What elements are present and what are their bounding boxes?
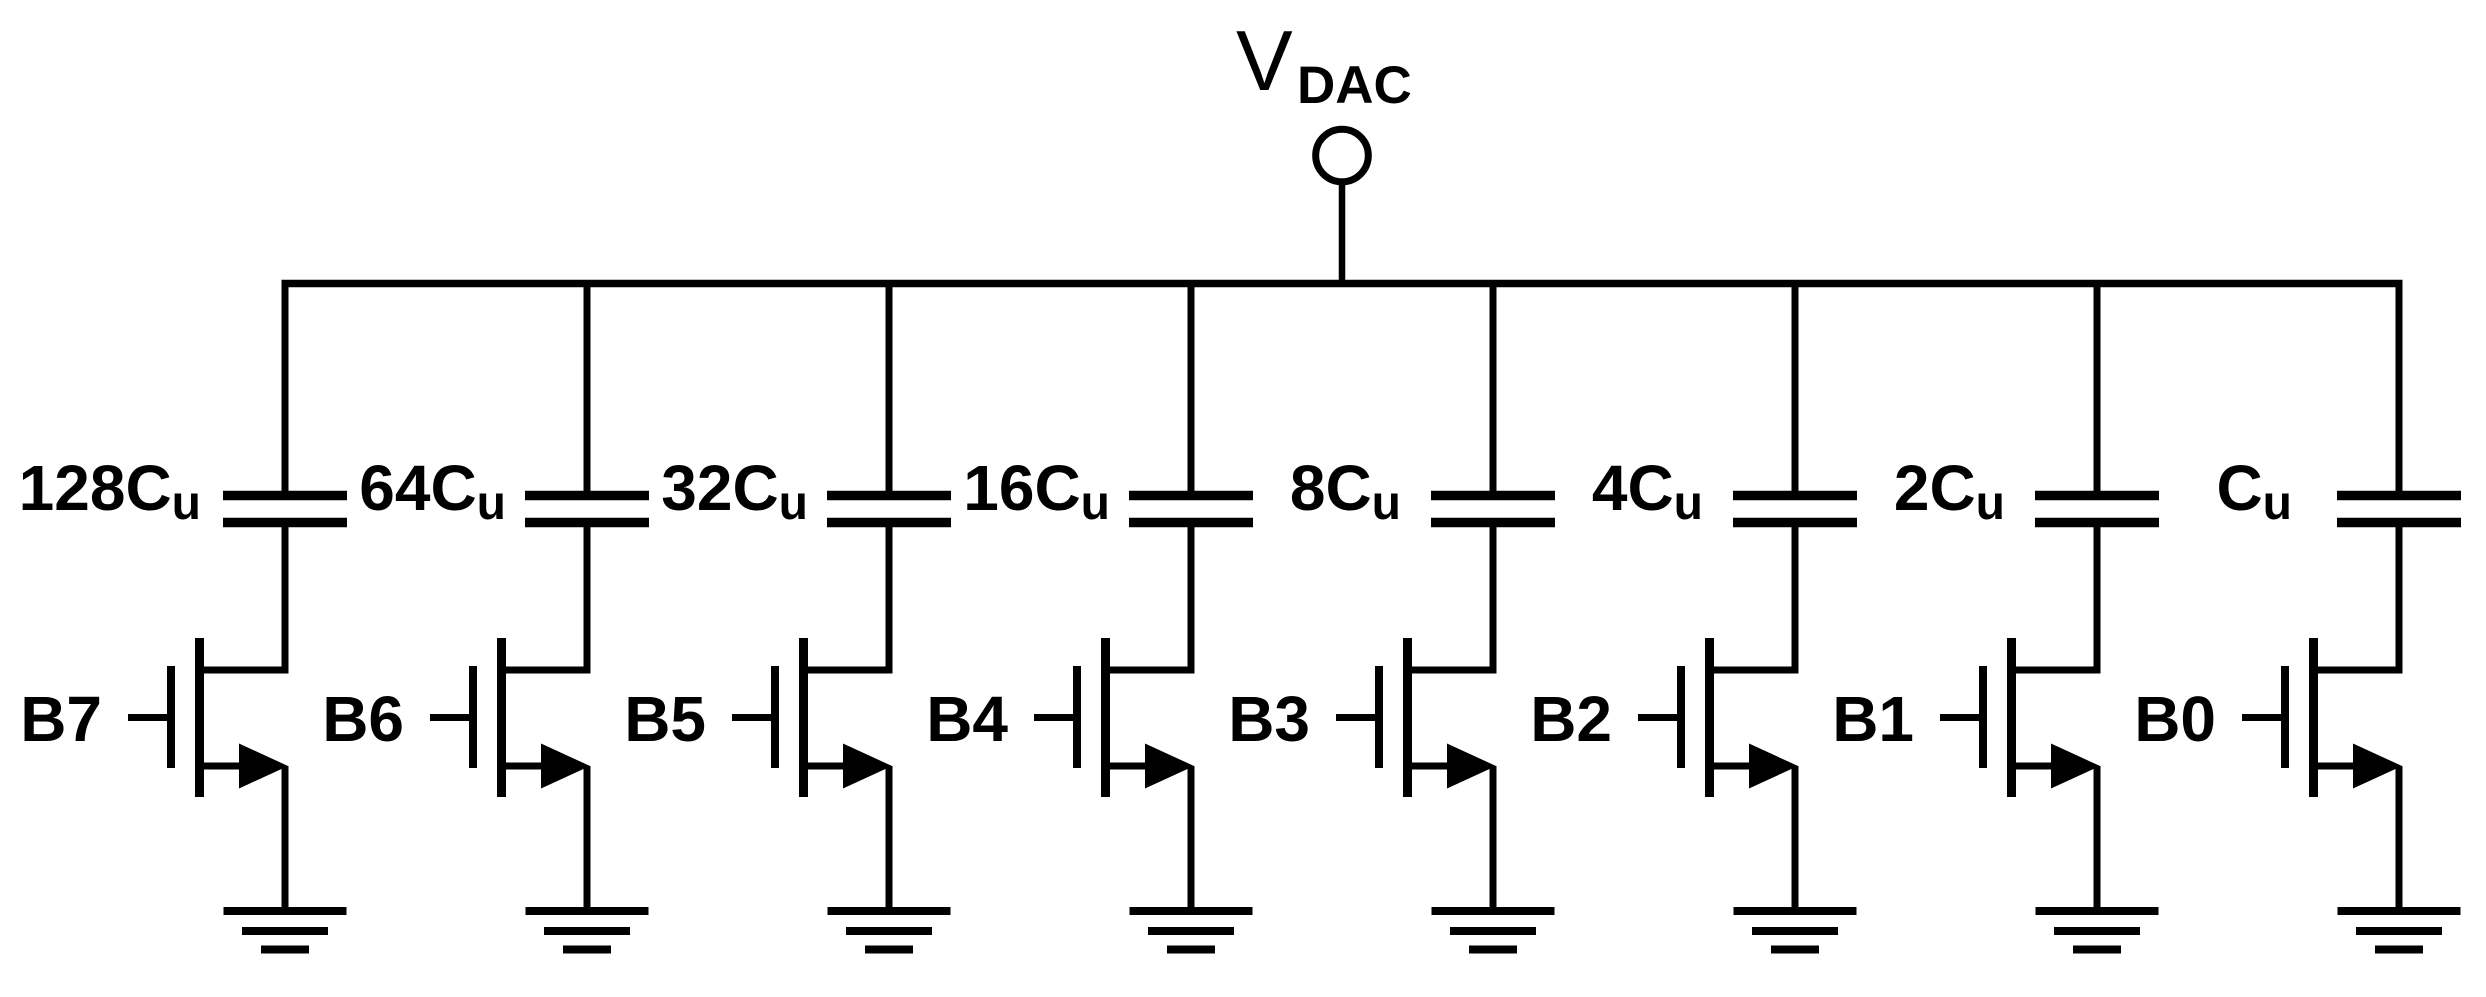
svg-text:B1: B1 — [1832, 683, 1914, 755]
wire: transistor Q2 source to ground — [1792, 766, 1799, 911]
transistor Q2 source lead — [1710, 763, 1755, 770]
svg-text:128Cu: 128Cu — [19, 452, 201, 530]
transistor Q0 source lead — [2314, 763, 2359, 770]
transistor Q6 channel bar — [497, 638, 506, 797]
wire: capacitor C7 bottom plate to transistor Q7 drain — [200, 520, 285, 670]
capacitor C5 bottom plate — [827, 518, 951, 528]
transistor Q6 gate lead — [430, 714, 477, 721]
capacitor C7 bottom plate — [223, 518, 347, 528]
capacitor C0 top plate — [2337, 491, 2461, 501]
wire: bus to capacitor 128Cu top plate (branch B7) — [282, 281, 289, 493]
transistor Q6 source arrow — [541, 744, 590, 789]
transistor Q3 channel bar — [1403, 638, 1412, 797]
wire: capacitor C6 bottom plate to transistor Q6 drain — [502, 520, 587, 670]
svg-text:B7: B7 — [20, 683, 102, 755]
transistor Q0 gate lead — [2242, 714, 2289, 721]
transistor Q3 gate bar — [1375, 666, 1383, 768]
wire: transistor Q7 source to ground — [282, 766, 289, 911]
svg-text:B0: B0 — [2134, 683, 2216, 755]
ground (branch B4) — [1130, 911, 1253, 950]
svg-text:B4: B4 — [926, 683, 1008, 755]
svg-text:B3: B3 — [1228, 683, 1310, 755]
wire: transistor Q3 source to ground — [1490, 766, 1497, 911]
transistor Q4 gate lead — [1034, 714, 1081, 721]
transistor Q2 gate lead — [1638, 714, 1685, 721]
ground (branch B3) — [1432, 911, 1555, 950]
capacitor C7 top plate — [223, 491, 347, 501]
transistor Q7 channel bar — [195, 638, 204, 797]
svg-text:Cu: Cu — [2216, 452, 2292, 530]
wire: capacitor C3 bottom plate to transistor Q3 drain — [1408, 520, 1493, 670]
ground (branch B6) — [526, 911, 649, 950]
transistor Q2 channel bar — [1705, 638, 1714, 797]
transistor Q5 gate bar — [771, 666, 779, 768]
capacitor C4 bottom plate — [1129, 518, 1253, 528]
capacitor C5 top plate — [827, 491, 951, 501]
transistor Q3 source lead — [1408, 763, 1453, 770]
transistor Q6 source lead — [502, 763, 547, 770]
transistor Q4 channel bar — [1101, 638, 1110, 797]
transistor Q4 source arrow — [1145, 744, 1194, 789]
transistor Q4 source lead — [1106, 763, 1151, 770]
transistor Q1 source lead — [2012, 763, 2057, 770]
svg-text:B2: B2 — [1530, 683, 1612, 755]
transistor Q5 gate lead — [732, 714, 779, 721]
transistor Q3 gate lead — [1336, 714, 1383, 721]
wire: capacitor C1 bottom plate to transistor Q1 drain — [2012, 520, 2097, 670]
svg-text:16Cu: 16Cu — [963, 452, 1110, 530]
wire: top bus (common top plate rail) — [282, 280, 2403, 288]
transistor Q2 source arrow — [1749, 744, 1798, 789]
transistor Q7 gate bar — [167, 666, 175, 768]
svg-text:8Cu: 8Cu — [1290, 452, 1401, 530]
capacitor C2 bottom plate — [1733, 518, 1857, 528]
wire: terminal to top bus — [1339, 182, 1346, 287]
transistor Q1 gate lead — [1940, 714, 1987, 721]
wire: capacitor C2 bottom plate to transistor Q2 drain — [1710, 520, 1795, 670]
svg-text:32Cu: 32Cu — [661, 452, 808, 530]
transistor Q1 source arrow — [2051, 744, 2100, 789]
transistor Q6 gate bar — [469, 666, 477, 768]
svg-text:64Cu: 64Cu — [359, 452, 506, 530]
svg-text:4Cu: 4Cu — [1592, 452, 1703, 530]
capacitor C0 bottom plate — [2337, 518, 2461, 528]
transistor Q5 channel bar — [799, 638, 808, 797]
transistor Q7 source arrow — [239, 744, 288, 789]
capacitor C1 top plate — [2035, 491, 2159, 501]
ground (branch B1) — [2036, 911, 2159, 950]
wire: bus to capacitor 8Cu top plate (branch B3) — [1490, 281, 1497, 493]
transistor Q1 channel bar — [2007, 638, 2016, 797]
transistor Q3 source arrow — [1447, 744, 1496, 789]
ground (branch B5) — [828, 911, 951, 950]
ground (branch B2) — [1734, 911, 1857, 950]
wire: capacitor C4 bottom plate to transistor Q4 drain — [1106, 520, 1191, 670]
wire: transistor Q0 source to ground — [2396, 766, 2403, 911]
wire: bus to capacitor 32Cu top plate (branch B5) — [886, 281, 893, 493]
transistor Q7 source lead — [200, 763, 245, 770]
wire: bus to capacitor 64Cu top plate (branch B6) — [584, 281, 591, 493]
capacitor C6 bottom plate — [525, 518, 649, 528]
wire: bus to capacitor Cu top plate (branch B0) — [2396, 281, 2403, 493]
output terminal circle VDAC — [1316, 129, 1369, 182]
ground (branch B0) — [2338, 911, 2461, 950]
capacitor C4 top plate — [1129, 491, 1253, 501]
wire: bus to capacitor 16Cu top plate (branch B4) — [1188, 281, 1195, 493]
capacitor C2 top plate — [1733, 491, 1857, 501]
transistor Q4 gate bar — [1073, 666, 1081, 768]
node VDAC label — [1236, 14, 1412, 115]
svg-text:V: V — [1236, 14, 1293, 109]
wire: transistor Q5 source to ground — [886, 766, 893, 911]
capacitor C6 top plate — [525, 491, 649, 501]
wire: capacitor C0 bottom plate to transistor Q0 drain — [2314, 520, 2399, 670]
svg-text:DAC: DAC — [1297, 56, 1412, 115]
transistor Q1 gate bar — [1979, 666, 1987, 768]
wire: bus to capacitor 4Cu top plate (branch B2) — [1792, 281, 1799, 493]
transistor Q0 gate bar — [2281, 666, 2289, 768]
transistor Q2 gate bar — [1677, 666, 1685, 768]
capacitor C3 top plate — [1431, 491, 1555, 501]
transistor Q5 source lead — [804, 763, 849, 770]
wire: transistor Q6 source to ground — [584, 766, 591, 911]
svg-text:B5: B5 — [624, 683, 706, 755]
transistor Q7 gate lead — [128, 714, 175, 721]
transistor Q5 source arrow — [843, 744, 892, 789]
transistor Q0 source arrow — [2353, 744, 2402, 789]
capacitor C3 bottom plate — [1431, 518, 1555, 528]
capacitor C1 bottom plate — [2035, 518, 2159, 528]
transistor Q0 channel bar — [2309, 638, 2318, 797]
wire: transistor Q4 source to ground — [1188, 766, 1195, 911]
ground (branch B7) — [224, 911, 347, 950]
wire: bus to capacitor 2Cu top plate (branch B1) — [2094, 281, 2101, 493]
wire: capacitor C5 bottom plate to transistor Q5 drain — [804, 520, 889, 670]
wire: transistor Q1 source to ground — [2094, 766, 2101, 911]
svg-text:2Cu: 2Cu — [1894, 452, 2005, 530]
svg-text:B6: B6 — [322, 683, 404, 755]
